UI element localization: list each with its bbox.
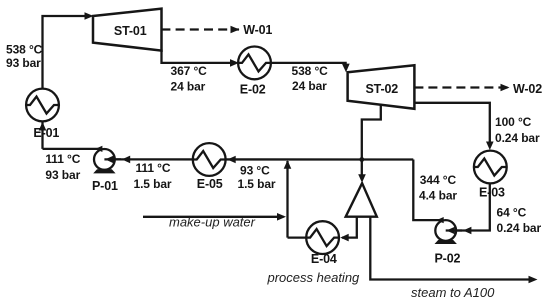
svg-text:process heating: process heating	[267, 270, 361, 285]
svg-text:ST-01: ST-01	[114, 24, 147, 38]
arrow W-01	[231, 26, 240, 34]
dashed shaft W-02	[414, 86, 509, 88]
letdown / desuperheater triangle	[346, 183, 377, 217]
svg-text:100 °C: 100 °C	[495, 115, 532, 129]
svg-text:ST-02: ST-02	[366, 82, 399, 96]
wire triangle right leg to steam outlet	[370, 216, 529, 280]
wire ST-02 extraction down to triangle	[362, 104, 381, 177]
svg-text:E-04: E-04	[311, 252, 337, 266]
svg-text:E-01: E-01	[33, 126, 59, 140]
svg-text:344 °C: 344 °C	[420, 173, 457, 187]
heat exchanger E-03	[474, 151, 507, 184]
svg-text:E-05: E-05	[197, 177, 223, 191]
svg-text:0.24 bar: 0.24 bar	[497, 221, 542, 235]
wire E-01 to ST-01 (vertical + top horizontal)	[43, 16, 91, 149]
svg-text:E-03: E-03	[479, 185, 505, 199]
svg-text:367 °C: 367 °C	[171, 64, 208, 78]
svg-text:E-02: E-02	[240, 83, 266, 97]
svg-text:1.5 bar: 1.5 bar	[134, 177, 172, 191]
arrow steam to A100	[529, 276, 538, 284]
arrow riser into header	[284, 160, 292, 169]
heat exchanger E-04	[306, 221, 339, 254]
svg-text:24 bar: 24 bar	[292, 79, 327, 93]
wire riser E-04 outlet up to header	[286, 161, 288, 238]
wire P-01 discharge to E-01	[43, 148, 103, 150]
heat exchanger E-01	[26, 89, 59, 122]
svg-text:W-02: W-02	[513, 82, 542, 96]
svg-text:111 °C: 111 °C	[45, 152, 80, 166]
pump P-02	[435, 217, 472, 244]
wire E-04 inlet from triangle left leg	[342, 216, 357, 238]
wire E-04 outlet to riser	[288, 236, 307, 238]
wire E-02 to ST-02 inlet	[271, 63, 346, 66]
pump P-01	[93, 146, 130, 174]
turbine ST-02	[348, 65, 415, 109]
wire E-03 down to P-02 suction	[449, 184, 490, 231]
svg-text:111 °C: 111 °C	[136, 161, 171, 175]
svg-text:W-01: W-01	[243, 23, 272, 37]
heat exchanger E-05	[193, 143, 226, 176]
svg-text:538 °C: 538 °C	[6, 42, 43, 56]
svg-text:4.4 bar: 4.4 bar	[419, 188, 457, 202]
svg-text:P-01: P-01	[92, 179, 118, 193]
heat exchanger E-02	[238, 47, 271, 80]
svg-text:0.24 bar: 0.24 bar	[495, 131, 540, 145]
turbine ST-01	[93, 9, 162, 51]
arrow into E-03	[486, 142, 494, 151]
svg-text:538 °C: 538 °C	[292, 64, 329, 78]
node junction extraction/header	[359, 157, 364, 162]
arrow W-02	[501, 84, 510, 92]
svg-text:64 °C: 64 °C	[497, 206, 527, 220]
svg-text:93 bar: 93 bar	[45, 168, 80, 182]
svg-text:93 °C: 93 °C	[240, 163, 270, 177]
svg-text:P-02: P-02	[435, 251, 461, 265]
svg-text:make-up water: make-up water	[169, 215, 256, 230]
arrow into E-04	[340, 234, 348, 242]
svg-text:1.5 bar: 1.5 bar	[238, 177, 276, 191]
svg-text:24 bar: 24 bar	[171, 79, 206, 93]
wire P-02 discharge to header riser	[413, 160, 443, 221]
arrow into ST-02	[342, 64, 350, 73]
wire header (condensate return)	[107, 158, 413, 160]
arrow into E-05	[227, 156, 235, 164]
wire ST-02 exhaust to E-03	[414, 103, 489, 146]
wire ST-01 outlet down to E-02 line	[162, 50, 237, 63]
dashed shaft W-01	[161, 28, 239, 30]
arrow into E-02	[230, 59, 239, 67]
svg-text:93 bar: 93 bar	[6, 56, 41, 70]
wire make-up water line	[143, 216, 284, 218]
arrow make-up water junction	[277, 213, 286, 221]
svg-text:steam to A100: steam to A100	[411, 285, 495, 300]
arrow into triangle apex	[358, 174, 366, 183]
arrow into E-01	[39, 122, 47, 131]
arrow into ST-01	[85, 12, 94, 20]
